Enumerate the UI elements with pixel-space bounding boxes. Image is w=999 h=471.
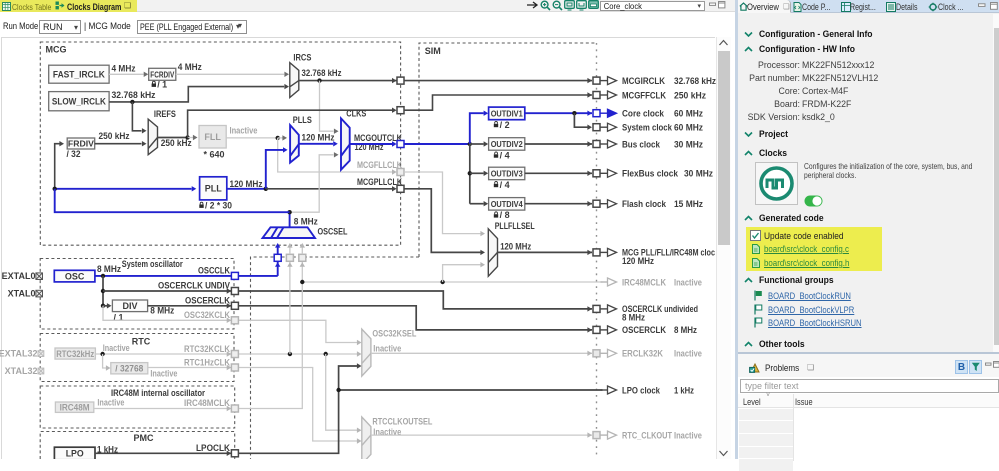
Run Mode combo	[39, 20, 81, 34]
svg-text:OUTDIV3: OUTDIV3	[491, 169, 523, 179]
Code Preview tab icon	[793, 2, 802, 12]
label FCRDIV lock / 1	[153, 81, 156, 83]
svg-text:System clock: System clock	[622, 123, 673, 133]
wire OSCSEL feed up to FRDIV	[55, 144, 60, 189]
Overview active tab	[738, 0, 791, 13]
svg-text:IREFS: IREFS	[154, 109, 176, 119]
block SLOW_IRCLK	[49, 92, 109, 111]
port FlexBus clock on SIM boundary	[593, 170, 600, 177]
block FLL (inactive)	[199, 126, 226, 149]
svg-text:IRC48MCLK: IRC48MCLK	[622, 277, 666, 287]
block PLL	[200, 177, 227, 200]
output arrow Bus clock	[601, 143, 608, 145]
divider OUTDIV2	[489, 138, 525, 151]
port MCGFFCLK on MCG boundary	[397, 107, 404, 114]
problems header strip	[738, 354, 999, 377]
svg-text:8 MHz: 8 MHz	[150, 305, 174, 315]
Details tab label	[896, 2, 918, 12]
port ERCLK32K on SIM boundary (inactive)	[593, 350, 600, 357]
svg-text:250 kHz: 250 kHz	[674, 90, 706, 100]
label OUTDIV1 lock / 2	[495, 121, 498, 123]
wire OSCSEL output to PLL/FRDIV (blue)	[55, 189, 290, 212]
output arrow LPO clock	[601, 389, 608, 391]
MCG Mode label	[84, 21, 131, 31]
wire SLOW_IRCLK branch to IREFS input 1	[132, 102, 141, 131]
output arrow MCG PLL/FLL/IRC48M cloc	[601, 251, 608, 253]
mode toolbar row	[0, 12, 735, 37]
svg-text:OSC32KSEL: OSC32KSEL	[372, 329, 416, 339]
svg-text:* 640: * 640	[204, 150, 225, 160]
junction IREFS output	[185, 135, 189, 139]
panel maximize	[990, 2, 998, 10]
wire OSCCLK to OSCSEL (blue)	[238, 275, 277, 277]
scrollbar thumb	[718, 51, 730, 245]
svg-text:RTCCLKOUTSEL: RTCCLKOUTSEL	[372, 417, 432, 427]
port OSCERCLK UNDIV	[231, 288, 238, 295]
svg-text:PLLS: PLLS	[293, 115, 312, 125]
Registers tab label	[850, 2, 876, 12]
svg-text:OUTDIV2: OUTDIV2	[491, 139, 523, 149]
svg-text:Inactive: Inactive	[97, 398, 124, 408]
svg-text:/ 2 * 30: / 2 * 30	[205, 200, 232, 210]
wire OSCSEL to CLKS input 3 (inactive)	[290, 155, 334, 212]
port Bus clock on SIM boundary	[593, 141, 600, 148]
output arrow System clock	[601, 126, 608, 128]
Problems tab label	[765, 363, 799, 373]
filter text input	[740, 379, 999, 393]
Clocks Table tab icon	[2, 2, 11, 11]
wire IRCS branch down to CLKS input 1 (inactive)	[320, 81, 334, 132]
wire RTC32KCLK up to OSCSEL input 2 (inactive)	[289, 262, 291, 355]
svg-text:30 MHz: 30 MHz	[674, 139, 703, 149]
port Core clock on SIM boundary (blue)	[593, 110, 600, 117]
svg-text:Bus clock: Bus clock	[622, 139, 661, 149]
svg-text:System oscillator: System oscillator	[122, 259, 183, 269]
toolbar icon filter funnel	[969, 360, 982, 374]
svg-text:8 MHz: 8 MHz	[622, 312, 645, 322]
svg-text:1 kHz: 1 kHz	[674, 385, 694, 395]
section: Configuration - General Info	[744, 31, 753, 38]
clock_config.h link icon	[752, 258, 760, 268]
tab close glyph	[124, 1, 131, 10]
wire down to OUTDIV3 and OUTDIV4	[469, 144, 471, 204]
svg-text:120 MHz: 120 MHz	[302, 133, 335, 143]
svg-text:/ 4: / 4	[500, 180, 510, 190]
wire RTC1HzCLK (inactive)	[148, 367, 231, 369]
System oscillator region dashed frame	[40, 259, 234, 330]
label OUTDIV3 lock / 4	[495, 181, 498, 183]
toolbar icon B	[955, 360, 968, 374]
Clock consumers tab icon	[928, 2, 938, 12]
wire IRC48MCLK row (inactive)	[302, 281, 602, 283]
svg-text:MCGFFCLK: MCGFFCLK	[622, 90, 666, 100]
editor minimize button	[709, 2, 717, 8]
wire MCGOUTCLK to OUTDIV junction (blue)	[404, 143, 470, 145]
mux RTCCLKOUTSEL (inactive)	[362, 417, 371, 464]
svg-text:OUTDIV4: OUTDIV4	[491, 199, 523, 209]
junction PLL source	[53, 187, 57, 191]
oscillator LPO	[54, 447, 95, 460]
Overview tab close	[783, 2, 790, 11]
svg-text:8 MHz: 8 MHz	[97, 264, 121, 274]
MCG Mode combo	[137, 20, 247, 34]
BOARD_BootClockRUN flag icon (filled)	[754, 290, 763, 301]
Registers tab icon	[841, 2, 851, 12]
port RTC1HzCLK (inactive)	[231, 364, 238, 371]
junction OSCERCLK UNDIV	[101, 289, 105, 293]
oscillator RTC32kHz (inactive)	[55, 348, 95, 359]
port System clock on SIM boundary	[593, 124, 600, 131]
divider OUTDIV4	[489, 198, 525, 211]
MCG region dashed frame	[40, 42, 400, 245]
wire MCGPLLCLK to PLLFLLSEL input 2	[404, 189, 481, 253]
label PLL lock / 2 * 30	[200, 202, 203, 204]
pin XTAL32 pad	[38, 368, 44, 374]
wire junction to OUTDIV2	[470, 143, 484, 145]
svg-text:/ 2: / 2	[500, 120, 510, 130]
Clocks enable toggle	[804, 195, 823, 207]
junction on SLOW_IRCLK wire	[130, 100, 134, 104]
output arrow OSCERCLK	[601, 329, 608, 331]
section: Other tools	[744, 341, 753, 348]
junction DIV feed	[101, 304, 105, 308]
svg-text:120 MHz: 120 MHz	[500, 242, 531, 252]
port MCGPLLCLK on MCG boundary	[397, 185, 404, 192]
Clocks Table tab label	[12, 2, 51, 12]
wire MCGFLLCLK to PLLFLLSEL input 1 (inactive)	[404, 172, 481, 234]
svg-text:SLOW_IRCLK: SLOW_IRCLK	[52, 96, 106, 106]
wire FAST_IRCLK to FCRDIV (inactive)	[109, 73, 143, 75]
junction IRC48M vertical	[300, 280, 304, 284]
svg-text:8 MHz: 8 MHz	[674, 325, 697, 335]
IRC48M internal oscillator region dashed frame	[40, 386, 235, 428]
editor maximize button	[718, 1, 726, 9]
junction IRC48MCLK to PLLFLLSEL	[440, 280, 444, 284]
mux IRCS	[290, 63, 299, 98]
Clocks description	[804, 162, 972, 181]
mux IREFS	[148, 119, 157, 155]
svg-text:Inactive: Inactive	[103, 343, 130, 353]
output arrow ERCLK32K	[601, 352, 608, 354]
svg-text:RTC32KCLK: RTC32KCLK	[184, 344, 230, 354]
svg-text:RTC1HzCLK: RTC1HzCLK	[184, 357, 230, 367]
svg-text:32.768 kHz: 32.768 kHz	[112, 90, 156, 100]
svg-text:DIV: DIV	[123, 301, 138, 311]
port MCG PLL/FLL/IRC48M clock on SIM boundary	[593, 249, 600, 256]
svg-text:PLLFLLSEL: PLLFLLSEL	[495, 221, 535, 231]
svg-text:15 MHz: 15 MHz	[674, 199, 703, 209]
divider OUTDIV1 (blue)	[489, 107, 525, 120]
pin EXTAL32 pad	[38, 351, 44, 357]
junction FLL output	[276, 136, 280, 140]
mux CLKS (blue)	[341, 118, 350, 169]
svg-text:OSCSEL: OSCSEL	[318, 227, 348, 237]
wire FCRDIV to IRCS (inactive)	[176, 73, 284, 75]
port OSCERCLK undivided on SIM boundary	[593, 305, 600, 312]
wire IRC48MCLK from oscillator box (inactive)	[94, 408, 231, 410]
wire RTC1HzCLK to RTCCLKOUTSEL input 2 (inactive)	[239, 368, 358, 442]
problems minimize	[985, 362, 992, 367]
svg-text:FCRDIV: FCRDIV	[150, 70, 174, 80]
section: Configuration - HW Info	[744, 46, 753, 53]
wire System clock branch	[574, 113, 588, 127]
svg-text:OSC32KCLK: OSC32KCLK	[184, 310, 230, 320]
BOARD_BootClockHSRUN flag icon	[754, 317, 763, 328]
port MCGFFCLK on SIM boundary	[593, 92, 600, 99]
output arrow MCGFFCLK	[601, 94, 608, 96]
wire OSC down-branch	[102, 276, 104, 306]
label OUTDIV4 lock / 8	[495, 212, 498, 214]
sash divider	[735, 0, 738, 459]
junction OUTDIV3 feed	[468, 171, 472, 175]
diagram toolbar: zoom out icon	[552, 0, 563, 11]
Run Mode label	[3, 21, 38, 31]
PMC region dashed frame	[40, 432, 235, 460]
diagram toolbar: fit screen icon 2	[576, 0, 588, 11]
panel scrollbar	[993, 14, 999, 352]
port OSCSEL input 3 on boundary (inactive)	[300, 262, 305, 267]
wire Flash clock from OUTDIV4	[525, 203, 592, 205]
junction OSCSEL output	[287, 210, 291, 214]
svg-text:CLKS: CLKS	[346, 108, 366, 118]
svg-text:OSCERCLK: OSCERCLK	[622, 325, 666, 335]
svg-text:EXTAL32: EXTAL32	[0, 349, 38, 359]
svg-text:Inactive: Inactive	[230, 125, 258, 135]
port MCGIRCLK on SIM boundary	[593, 77, 600, 84]
port RTC32KCLK (inactive)	[231, 351, 238, 358]
svg-text:IRCS: IRCS	[293, 52, 311, 62]
Code Preview tab label	[802, 2, 830, 12]
Clocks Diagram tab label	[67, 2, 121, 12]
wire LPOCLK	[95, 452, 231, 454]
wire into PLL (blue)	[55, 188, 192, 190]
svg-text:OSCCLK: OSCCLK	[198, 265, 230, 275]
divider FCRDIV	[149, 68, 176, 80]
junction Core clock	[572, 111, 576, 115]
section: Generated code	[744, 215, 753, 222]
junction IRCS output	[317, 78, 321, 82]
svg-text:Flash clock: Flash clock	[622, 199, 667, 209]
port RTC_CLKOUT on SIM boundary (inactive)	[593, 432, 600, 439]
mux OSC32KSEL (inactive)	[362, 329, 371, 376]
wire MCGFFCLK from IREFS junction	[188, 110, 392, 137]
divider / 32768 (inactive)	[111, 363, 148, 374]
svg-text:MCGFLLCLK: MCGFLLCLK	[357, 160, 402, 170]
svg-text:Inactive: Inactive	[674, 277, 702, 287]
wire FlexBus clock from OUTDIV3	[525, 172, 592, 174]
yellow highlight block	[746, 227, 882, 271]
divider FRDIV	[67, 138, 95, 149]
pin XTAL0 pad	[36, 290, 43, 297]
svg-text:/ 32: / 32	[67, 149, 81, 159]
wire MCGOUTCLK (blue)	[350, 143, 392, 145]
pin EXTAL0 pad	[36, 273, 43, 280]
Details tab icon	[886, 2, 896, 12]
svg-text:Inactive: Inactive	[373, 344, 401, 354]
wire LPO to LPO clock row	[238, 390, 602, 453]
port Flash clock on SIM boundary	[593, 200, 600, 207]
wire into DIV	[103, 305, 107, 307]
svg-text:60 MHz: 60 MHz	[674, 123, 703, 133]
port MCGIRCLK on MCG boundary	[397, 77, 404, 84]
output arrow Flash clock	[601, 203, 608, 205]
wire FLL output to PLLS input 1 (inactive)	[278, 137, 283, 139]
svg-text:IRC48M internal oscillator: IRC48M internal oscillator	[111, 388, 205, 398]
Overview tab home icon	[739, 2, 748, 11]
Overview tab label	[747, 2, 779, 12]
label OUTDIV2 lock / 4	[495, 152, 498, 154]
wire IRC48MCLK from oscillator (inactive)	[239, 262, 303, 409]
svg-text:4 MHz: 4 MHz	[178, 62, 202, 72]
port OSCERCLK	[231, 302, 238, 309]
svg-text:ERCLK32K: ERCLK32K	[622, 349, 663, 359]
yellow highlighted tabs	[0, 0, 137, 12]
wire Bus clock from OUTDIV2	[525, 143, 592, 145]
wire Core clock from OUTDIV1 (blue)	[525, 112, 592, 114]
wire FRDIV to IREFS input 2	[95, 143, 142, 145]
port OSCSEL input 2 on boundary (inactive)	[287, 262, 292, 267]
svg-text:4 MHz: 4 MHz	[112, 64, 136, 74]
svg-text:Core clock: Core clock	[622, 109, 665, 119]
Core_clock combo	[600, 1, 705, 11]
mux PLLS (blue)	[290, 125, 299, 163]
junction RTC32KCLK to OSCSEL	[288, 352, 292, 356]
svg-text:250 kHz: 250 kHz	[99, 131, 130, 141]
scrollbar down arrow	[718, 449, 729, 457]
diagram toolbar: jump arrow	[526, 0, 540, 10]
wire OSC32KCLK to OSC32KSEL (inactive)	[239, 320, 358, 342]
output arrow OSCERCLK undivided	[601, 308, 608, 310]
svg-text:FlexBus clock: FlexBus clock	[622, 169, 679, 179]
output arrow FlexBus clock	[601, 172, 608, 174]
port MCGFLLCLK on MCG boundary (inactive)	[397, 169, 404, 176]
wire MCGPLLCLK to boundary	[266, 188, 392, 190]
wire SLOW_IRCLK to IRCS	[109, 87, 284, 102]
wire MCGFLLCLK (inactive)	[278, 138, 392, 172]
svg-text:PMC: PMC	[134, 433, 155, 443]
oscillator IRC48M (inactive)	[55, 402, 93, 412]
mux PLLFLLSEL	[488, 229, 497, 276]
output arrow IRC48MCLK	[601, 281, 608, 283]
wire LPO to OSC32KSEL input 3	[339, 366, 357, 390]
svg-text:OSC: OSC	[65, 271, 85, 281]
wire PLLS output to CLKS (blue)	[299, 143, 333, 145]
wire RTC32KCLK down to RTCCLKOUTSEL input 1 (inactive)	[326, 354, 357, 430]
svg-text:XTAL0: XTAL0	[8, 289, 36, 299]
wire into RTC divider (inactive)	[103, 354, 107, 368]
svg-text:/ 1: / 1	[114, 313, 124, 323]
wire into OUTDIV4	[470, 203, 484, 205]
svg-text:RTC_CLKOUT: RTC_CLKOUT	[622, 430, 672, 440]
RTC region dashed frame	[40, 334, 234, 382]
diagram toolbar: screen icon 3	[588, 0, 600, 11]
port OSC32KCLK (inactive)	[231, 317, 238, 324]
update code checkbox	[750, 230, 761, 241]
svg-text:120 MHz: 120 MHz	[230, 179, 263, 189]
junction PLL output	[264, 187, 268, 191]
svg-text:Inactive: Inactive	[150, 368, 177, 378]
divider DIV	[112, 300, 147, 312]
section: Clocks	[744, 150, 753, 157]
level column striped rows	[739, 409, 793, 421]
section: Functional groups	[744, 277, 753, 284]
wire IRCS output MCGIRCLK row	[299, 80, 592, 82]
port OSCERCLK on SIM boundary	[593, 326, 600, 333]
output arrow MCGIRCLK	[601, 80, 608, 82]
output arrow RTC_CLKOUT	[601, 434, 608, 436]
wire OSCERCLK feed	[239, 306, 593, 330]
svg-text:60 MHz: 60 MHz	[674, 109, 703, 119]
svg-text:OSCERCLK UNDIV: OSCERCLK UNDIV	[158, 280, 230, 290]
junction MCGOUTCLK	[468, 142, 472, 146]
diagram canvas frame	[1, 37, 715, 459]
svg-text:IRC48M: IRC48M	[60, 402, 90, 412]
wire FLL output (inactive)	[226, 137, 278, 139]
wire RTC32KCLK row (inactive)	[239, 353, 358, 355]
wire FLL input (inactive)	[188, 137, 193, 139]
Clocks tool icon	[755, 162, 798, 205]
output arrow Core clock	[601, 112, 608, 114]
svg-text:Inactive: Inactive	[674, 349, 702, 359]
diagram toolbar: fit screen icon 1	[564, 0, 576, 11]
header column separator	[793, 394, 794, 461]
svg-text:XTAL32: XTAL32	[5, 366, 38, 376]
svg-text:PLL: PLL	[205, 184, 223, 194]
divider OUTDIV3	[489, 167, 525, 180]
wire ERCLK32K output (inactive)	[371, 352, 592, 354]
junction RTC32KCLK to RTCCLKOUTSEL	[324, 352, 328, 356]
junction OSC output	[101, 274, 105, 278]
wire RTC_CLKOUT output (inactive)	[371, 434, 592, 436]
section: Project	[744, 131, 753, 138]
wire OSCCLK (blue)	[95, 275, 231, 277]
wire OSC32KCLK inside oscillator (inactive)	[103, 306, 231, 321]
svg-text:8 MHz: 8 MHz	[294, 217, 318, 227]
wire OSCSEL output (blue)	[289, 212, 291, 227]
Problems view icon	[749, 362, 761, 373]
Clock tab label	[938, 2, 963, 12]
wire IRC48MCLK branch to PLLFLLSEL input 3 (inactive)	[443, 265, 481, 282]
problems maximize	[993, 361, 999, 368]
svg-text:MCG: MCG	[46, 45, 67, 55]
svg-text:/ 32768: / 32768	[115, 363, 143, 373]
svg-text:SIM: SIM	[425, 46, 441, 56]
port OSCCLK (blue)	[231, 272, 238, 279]
clock_config.c link icon	[752, 244, 760, 254]
wire MCGFFCLK to SIM	[404, 95, 592, 110]
svg-text:/ 4: / 4	[500, 150, 510, 160]
port IRC48MCLK (inactive)	[231, 405, 238, 412]
wire MCGOUTCLK up to OUTDIV1 (blue)	[470, 113, 484, 144]
svg-text:RTC32kHz: RTC32kHz	[56, 349, 94, 359]
wire RTC32KCLK (inactive)	[95, 353, 231, 355]
svg-text:/ 8: / 8	[500, 210, 510, 220]
editor vertical scrollbar	[716, 37, 731, 459]
wire OSCERCLK UNDIV	[103, 290, 231, 292]
BOARD_BootClockVLPR flag icon	[754, 304, 763, 315]
wire OSCERCLK from DIV	[148, 305, 231, 307]
block FAST_IRCLK	[49, 65, 109, 83]
svg-text:32.768 kHz: 32.768 kHz	[302, 68, 342, 78]
panel minimize	[978, 3, 986, 8]
SIM region dashed frame	[251, 43, 597, 459]
port LPOCLK	[231, 450, 238, 457]
scrollbar up arrow	[718, 39, 729, 47]
wire MCG PLL/FLL/IRC48M clock output	[498, 251, 593, 253]
junction RTC32kHz output	[100, 352, 104, 356]
svg-text:LPO clock: LPO clock	[622, 385, 661, 395]
svg-text:FAST_IRCLK: FAST_IRCLK	[53, 69, 105, 79]
